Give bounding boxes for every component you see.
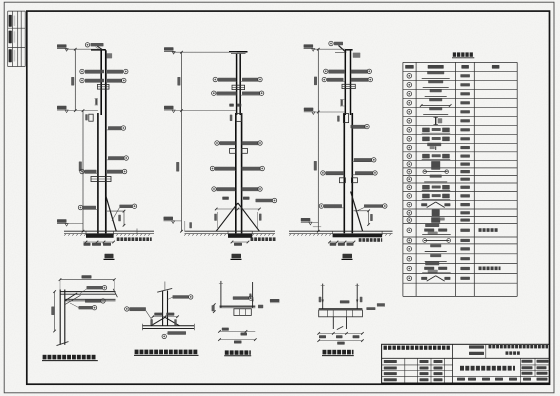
col1 footing caption [117,237,120,241]
column 1 top plate [91,49,106,51]
material table remark 1 [479,228,482,232]
col3 brace leader [364,204,383,207]
col2 leader rowA [213,77,217,81]
detail B top break [157,288,172,292]
detail D elev 0.00 [366,307,375,310]
column 2 shaft [236,53,238,115]
col2 leader rowD [210,166,214,170]
material table title [453,52,456,56]
col1 brace [106,196,116,231]
col2 jog plate [236,113,242,121]
col2 dims 150 [229,104,234,107]
col1 brace leader [119,205,132,208]
detail A beam [60,291,115,293]
detail D dim 1700 [319,340,363,342]
col1 footing dims [83,241,114,243]
col2 brace dim [216,208,259,210]
title proj text [489,345,492,348]
detail C dim 250 [213,305,215,312]
detail B beam [143,325,195,327]
dim line col3 (4500/9000) [317,49,319,231]
detail C dim 120 [258,305,263,309]
title signature rows [384,360,397,363]
detail A caption [43,355,47,360]
col3 leader rowE [321,171,325,175]
title bottom row [457,378,465,381]
detail D plate [319,308,363,310]
detail C bottom dims [220,330,256,332]
detail C nuts [234,309,251,316]
column 2 cap plate [229,51,248,53]
detail A top dim 3000 [60,279,114,281]
col3 footing caption [359,238,362,242]
col3 jog plate [343,114,348,123]
col2 leader rowC [215,141,219,145]
detail D center text [340,300,350,303]
detail D nut row [319,310,363,317]
material table remark 2 [479,267,482,271]
detail D caption [323,350,327,355]
dim line col2 (4500/9000) [181,52,183,231]
col3 footing dims [330,241,355,243]
col3 leader rowD [354,158,372,161]
level 5.00 col3 [304,44,314,47]
level 4.50 col1 [57,44,67,47]
level -1.00 col3 [301,218,311,221]
col3 footing [333,234,383,237]
col3 leader rowB [322,77,326,81]
level -1.00 col2 [164,217,174,220]
level 1.50 col2 [164,106,174,109]
detail B leader left [125,307,129,311]
detail B post [162,291,164,326]
material table header [405,65,414,69]
col2 footing [228,231,252,234]
col2 footing dims [232,241,248,243]
column 3 shaft [344,50,346,115]
detail A post break [57,342,69,346]
detail A post [59,290,61,345]
detail D bolt left [322,284,324,309]
col2 splice plates C [230,148,236,153]
column 1 top leader [85,43,89,47]
level 1.50 col1 [57,106,67,109]
col1 ground line [64,230,154,232]
col3 brace [351,192,363,232]
material table spec col [460,74,470,77]
col2 leader rowE [212,187,216,191]
col1 leader row3 [108,126,122,129]
col3 leader rowC [351,125,366,128]
col2 splice plate A [232,85,245,89]
col2 ground line [185,230,276,232]
col2 braces [216,203,238,231]
detail B leader below [162,334,166,338]
col1 leader row1 [80,69,84,73]
title right info [522,360,533,363]
detail B braces [151,317,165,326]
col1 dim 600 [107,210,124,212]
col3 dim 600 [354,210,369,212]
column 3 top bent [339,45,347,52]
col1 jog plate [89,114,93,121]
detail D bolt right [356,284,358,309]
detail A leader2 [85,299,101,302]
label 2-2 [343,254,353,258]
title drawing name [460,366,464,371]
revision strip table [7,11,9,66]
label C-C [232,254,242,258]
detail C bolt left [220,281,222,308]
detail C bolt right [252,282,254,308]
detail C elev mark [270,299,280,302]
col2 brace leader right [256,199,273,202]
detail B brace dims [150,319,152,325]
detail C plate [220,305,256,307]
level 1.50 col3 [304,108,314,111]
level 4.50 col2 [164,47,174,50]
title proj label [469,345,484,348]
col3 splice plate A [342,84,355,88]
detail A leader1 [87,286,103,289]
material table sketches [427,71,444,74]
col3 ground line [289,230,393,232]
title block grid [382,344,550,383]
col2 leader rowB [212,91,216,95]
level -1.00 col1 [57,219,67,222]
column 1 shaft [100,50,102,115]
detail B dims 300 300 [154,313,162,316]
label 1-1 [105,254,114,258]
detail A leader3 [79,306,93,309]
detail B caption [135,350,139,355]
detail B leader right [173,295,189,298]
column 3 top leader [329,41,333,45]
col1 dim 150 [95,99,97,105]
col1 footing [86,231,114,234]
material table row numbers [407,74,412,79]
detail D elev 1.10 [377,303,385,306]
detail A corner brace [65,293,77,301]
col1 splice plate lower [91,177,111,182]
col2 footing caption [251,237,254,241]
detail A beam lower [65,298,116,300]
col3 splice plates E [339,178,345,183]
col1 leader row2 [80,78,84,82]
col2 brace vdims [214,214,217,221]
col3 leader rowA [324,69,328,73]
col3 dim 150 [341,100,343,106]
material table grid [402,62,404,296]
detail C leader [233,296,249,299]
detail D dims 475 750 475 [319,332,363,334]
col1 leader row4 [108,156,124,159]
col1 leader row6 [78,205,82,209]
detail C caption [225,350,229,354]
detail D stem [332,317,334,329]
col1 splice plate upper [97,85,109,90]
detail A vert dim 2500 [54,292,56,331]
col3 leader rowF [319,204,323,208]
dim line col1 (4500/9000) [74,49,76,110]
title company [384,346,387,350]
col2 dim 250 [189,222,192,228]
col1 leader row5 [80,169,84,173]
